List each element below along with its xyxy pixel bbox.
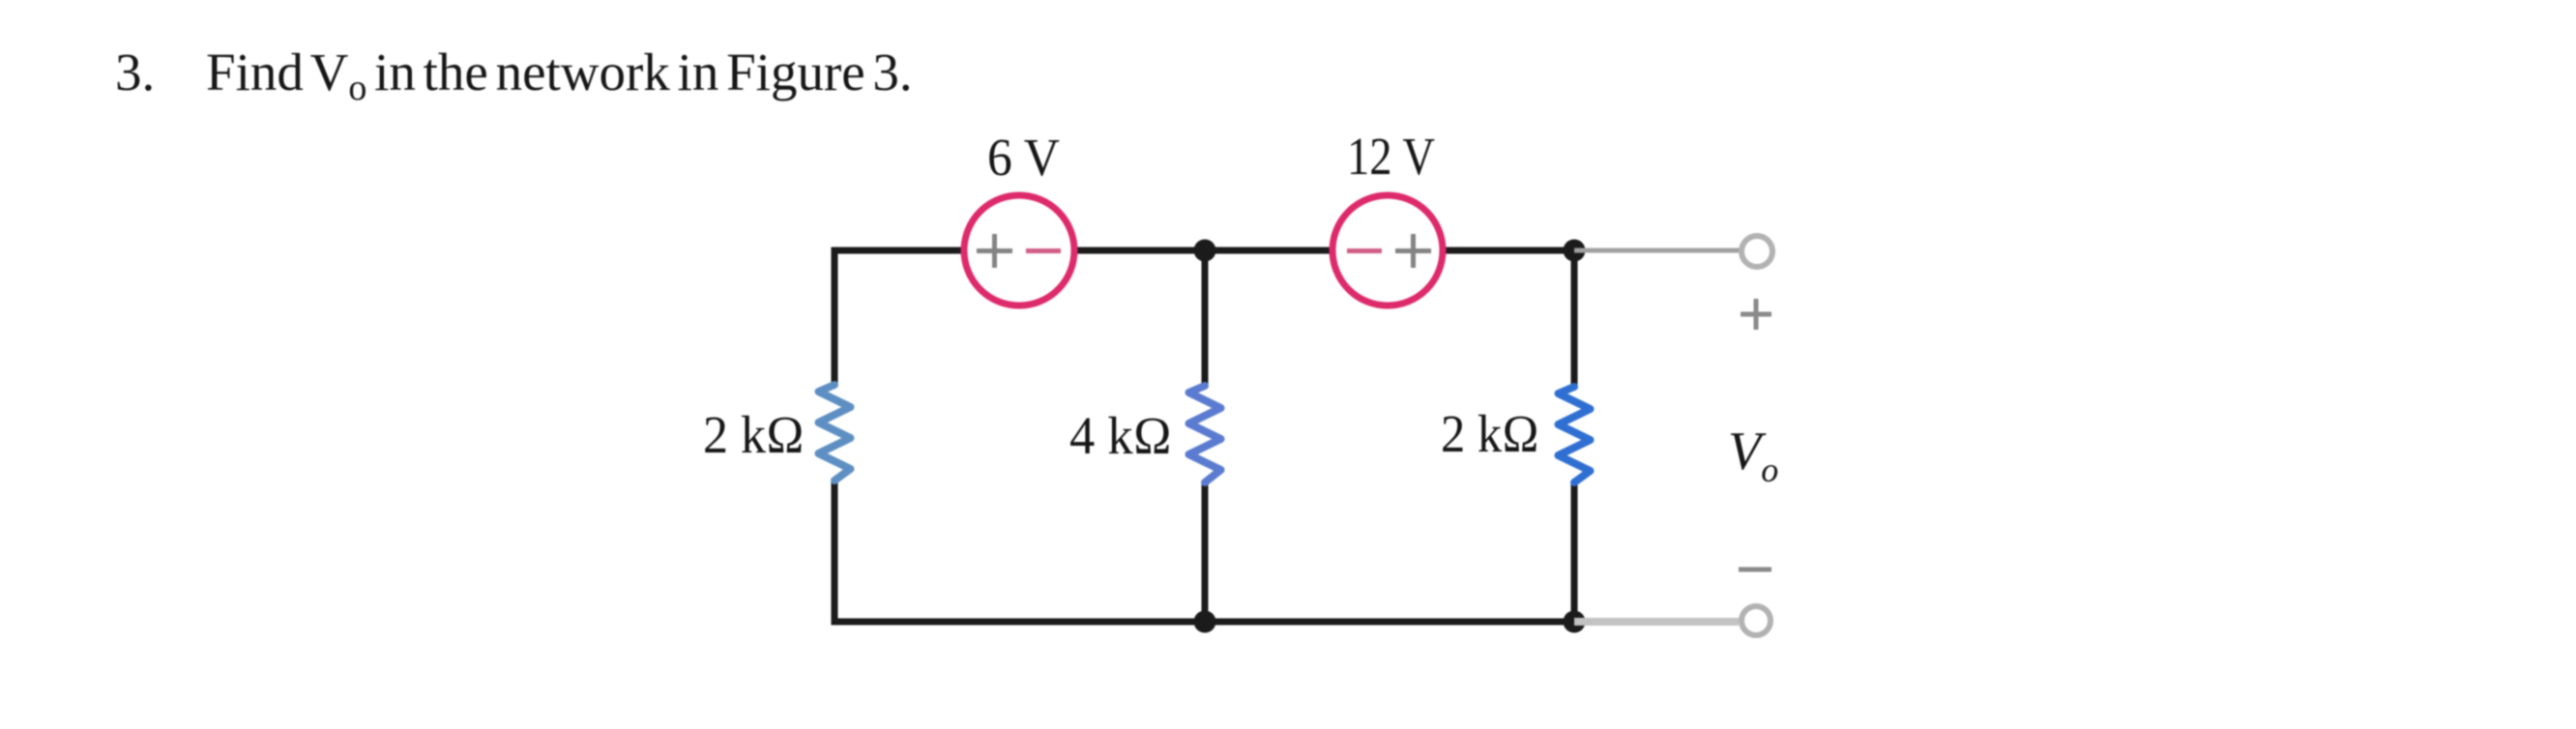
svg-text:Find Vo in the network in Figu: Find Vo in the network in Figure 3. xyxy=(206,43,913,108)
wire top xyxy=(834,248,1574,254)
wire gray top lead xyxy=(1574,248,1740,253)
svg-text:2 kΩ: 2 kΩ xyxy=(703,405,805,464)
wire left vertical lower xyxy=(832,481,838,626)
V2 minus sign xyxy=(1347,248,1382,253)
svg-text:3.: 3. xyxy=(115,43,155,102)
svg-text:Vo: Vo xyxy=(1728,422,1778,489)
svg-text:12 V: 12 V xyxy=(1347,127,1435,186)
resistor R3 2k zigzag xyxy=(1559,387,1591,482)
voltage source V1 6V circle xyxy=(964,195,1074,306)
node A top-middle junction dot xyxy=(1194,240,1216,262)
minus polarity mark xyxy=(1739,568,1771,572)
wire bottom xyxy=(834,619,1574,626)
V1 minus sign xyxy=(1026,248,1061,253)
wire left vertical upper xyxy=(832,248,838,387)
resistor R1 2k zigzag xyxy=(819,385,851,481)
svg-text:4 kΩ: 4 kΩ xyxy=(1069,406,1172,465)
terminal top open circle xyxy=(1742,236,1772,267)
V1 plus sign xyxy=(977,234,1012,268)
svg-text:6 V: 6 V xyxy=(987,128,1060,187)
node B top-right junction dot xyxy=(1564,240,1586,262)
wire right vertical lower xyxy=(1571,482,1578,622)
wire right vertical upper xyxy=(1571,250,1578,387)
wire gray bottom lead xyxy=(1574,618,1739,626)
terminal bottom open circle xyxy=(1742,606,1771,635)
node C bottom-middle junction dot xyxy=(1194,611,1216,633)
svg-text:2 kΩ: 2 kΩ xyxy=(1441,404,1539,463)
title text xyxy=(115,43,913,108)
resistor R2 4k zigzag xyxy=(1189,386,1221,482)
wire middle vertical lower xyxy=(1202,482,1209,622)
wire middle vertical upper xyxy=(1202,250,1209,386)
node D bottom-right junction dot xyxy=(1564,611,1586,633)
plus polarity mark xyxy=(1741,299,1771,330)
V2 plus sign xyxy=(1395,234,1431,268)
voltage source V2 12V circle xyxy=(1332,195,1443,306)
